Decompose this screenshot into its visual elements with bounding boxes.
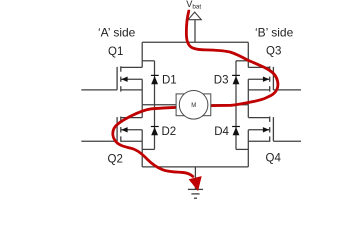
transistor Q4	[270, 117, 274, 142]
transistor Q1 body arrow	[121, 77, 127, 82]
Vbat arrow symbol	[188, 12, 201, 20]
wire D1-D2 branch upper	[154, 61, 156, 105]
svg-text:‘A’ side: ‘A’ side	[98, 26, 136, 40]
transistor Q1	[117, 66, 121, 91]
wire Q3 body lead	[248, 78, 269, 80]
svg-text:‘B’ side: ‘B’ side	[255, 26, 294, 40]
diode D4	[232, 127, 240, 136]
diode D3	[232, 75, 240, 84]
transistor Q4 body arrow	[263, 127, 269, 132]
wire D3 top jog	[236, 60, 248, 62]
wire Vbat lead	[194, 20, 196, 43]
wire Q4 gate lead	[273, 140, 301, 142]
ground	[188, 189, 203, 198]
wire D2 bottom jog	[142, 148, 154, 150]
node A motor-left line	[142, 104, 176, 106]
svg-text:D1: D1	[162, 75, 177, 87]
svg-text:Q1: Q1	[108, 46, 123, 58]
svg-text:D3: D3	[214, 75, 229, 87]
transistor Q3 body arrow	[263, 77, 269, 82]
wire top rail	[142, 41, 248, 43]
wire Q2 source drop	[141, 130, 143, 167]
wire Q2 drain riser	[141, 105, 143, 118]
node B motor-right line	[211, 104, 248, 106]
motor M1	[176, 91, 211, 120]
svg-text:D2: D2	[162, 126, 177, 138]
wire bottom rail	[142, 166, 248, 168]
wire Q3 source drop	[247, 79, 249, 105]
wire Q2 drain lead	[121, 117, 142, 119]
wire Q3 drain lead	[248, 66, 269, 68]
svg-text:M: M	[191, 103, 196, 109]
wire Q1 body lead	[121, 78, 142, 80]
wire D1 top jog	[142, 60, 154, 62]
wire A-side drain riser	[141, 42, 143, 67]
diode D2	[151, 127, 159, 136]
wire Q2 body lead	[121, 129, 142, 131]
wire Q4 drain lead	[248, 117, 269, 119]
svg-text:Q3: Q3	[266, 46, 281, 58]
diode D1	[151, 75, 159, 84]
red arrowhead at ground	[190, 177, 202, 190]
transistor Q2	[117, 117, 121, 142]
wire Q1 source lead	[121, 89, 142, 91]
transistor Q2 body arrow	[121, 127, 127, 132]
wire D3-D4 branch lower	[235, 105, 237, 150]
wire Q3 source lead	[248, 89, 269, 91]
wire Q4 source drop	[247, 130, 249, 167]
wire D4 bottom jog	[236, 148, 248, 150]
wire red current path	[113, 11, 278, 176]
wire Q2 gate lead	[81, 140, 117, 142]
wire Q1 source drop	[141, 79, 143, 105]
wire Q4 source lead	[248, 140, 269, 142]
svg-text:Q4: Q4	[266, 153, 282, 165]
svg-text:Vbat: Vbat	[186, 0, 201, 11]
wire Q3 gate lead	[273, 89, 301, 91]
transistor Q3	[270, 66, 274, 91]
wire D1-D2 branch lower	[154, 105, 156, 150]
wire B-side drain riser	[247, 42, 249, 67]
wire Q2 source lead	[121, 140, 142, 142]
wire Q1 gate lead	[81, 89, 117, 91]
wire Q1 drain lead	[121, 66, 142, 68]
wire D3-D4 branch upper	[235, 61, 237, 105]
wire Q4 drain riser	[247, 105, 249, 118]
svg-text:D4: D4	[214, 126, 229, 138]
wire ground lead	[194, 167, 196, 189]
svg-text:Q2: Q2	[108, 154, 123, 166]
wire Q4 body lead	[248, 129, 269, 131]
